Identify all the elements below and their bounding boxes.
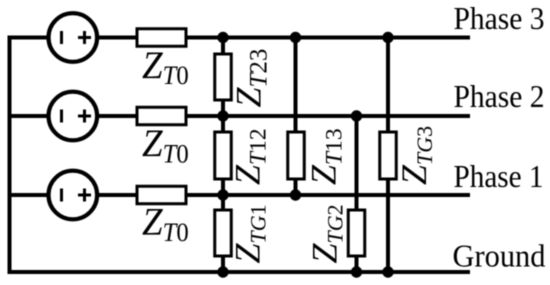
node Phase2-T12 junction <box>217 110 228 121</box>
resistor Z_T0 (Phase 3 row) <box>137 29 186 47</box>
svg-text:Phase 1: Phase 1 <box>454 158 544 194</box>
node Phase3-T13 junction <box>290 32 301 43</box>
resistor Z_T23 <box>215 54 232 100</box>
wire vertical column x=388 (Z_TG3) <box>386 38 390 273</box>
wire vertical column x=295.5 (Z_T13) <box>294 38 298 196</box>
wire Phase 2 horizontal <box>8 114 471 118</box>
resistor Z_TG2 <box>348 210 365 256</box>
node Ground-TG1 junction <box>217 266 228 277</box>
node Phase3-T23 junction <box>217 32 228 43</box>
svg-text:Phase 3: Phase 3 <box>454 0 545 36</box>
wire vertical column x=356.5 (Z_TG2) <box>355 116 359 272</box>
resistor Z_T13 <box>288 132 305 179</box>
wire Ground horizontal <box>8 270 471 274</box>
resistor Z_T0 (Phase 1 row) <box>137 186 186 204</box>
svg-text:Phase 2: Phase 2 <box>454 78 545 114</box>
svg-text:Ground: Ground <box>453 237 546 273</box>
node Phase2-TG2 junction <box>351 110 362 121</box>
node Ground-TG2 junction <box>351 266 362 277</box>
voltage source V1 (Phase 3) <box>49 13 98 62</box>
wire vertical column x=223 (Z_T23/Z_T12/Z_TG1) <box>221 38 225 273</box>
resistor Z_TG1 <box>215 210 232 256</box>
voltage source V2 (Phase 2) <box>49 92 98 141</box>
node Ground-TG3 junction <box>382 266 393 277</box>
voltage source V3 (Phase 1) <box>49 171 98 220</box>
resistor Z_T0 (Phase 2 row) <box>137 107 186 125</box>
wire Phase 1 horizontal <box>8 193 471 197</box>
wire Phase 3 horizontal <box>8 36 471 40</box>
resistor Z_T12 <box>215 132 232 179</box>
resistor Z_TG3 <box>380 132 397 179</box>
node Phase1-TG1 junction <box>217 189 228 200</box>
node Phase3-TG3 junction <box>382 32 393 43</box>
node Phase1-T13 junction <box>290 189 301 200</box>
wire left vertical bus <box>8 36 12 275</box>
